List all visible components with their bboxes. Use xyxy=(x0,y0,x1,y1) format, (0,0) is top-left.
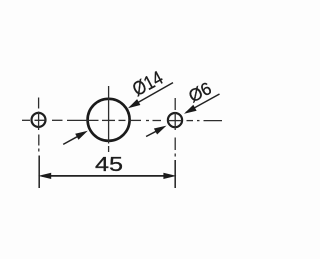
vertical center line of right hole xyxy=(174,98,176,188)
leader line for d6 label xyxy=(186,94,220,113)
leader arrowhead to large hole xyxy=(128,99,140,108)
horizontal center line (dash-dot through all three holes) xyxy=(22,119,222,121)
hole circle center large (d14) xyxy=(88,99,130,141)
vertical center line of left hole xyxy=(38,98,41,189)
hole circle right small (d6) xyxy=(168,113,182,127)
svg-text:45: 45 xyxy=(95,153,123,176)
dimension line 45 xyxy=(42,175,171,177)
dimension arrowhead right xyxy=(163,173,176,179)
label d6 xyxy=(185,78,215,106)
vertical center line of large hole xyxy=(108,86,110,152)
leader arrowhead to right hole xyxy=(184,105,197,114)
plain pointer arrow to right hole xyxy=(146,130,158,136)
plain pointer arrow to large hole xyxy=(63,136,79,145)
leader line for d14 label xyxy=(130,83,173,107)
dimension arrowhead left xyxy=(38,173,51,179)
hole circle left small (d6) xyxy=(32,113,46,127)
label d14 xyxy=(129,67,167,101)
